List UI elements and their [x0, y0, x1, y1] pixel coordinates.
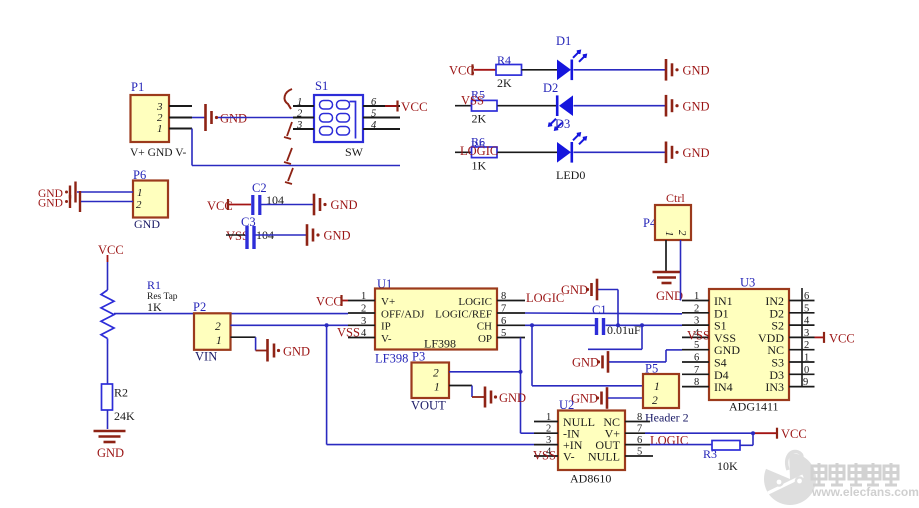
svg-text:GND: GND	[561, 283, 588, 297]
power port VCC (U3 VDD)	[815, 332, 855, 346]
resistor R6 1K	[471, 134, 497, 172]
svg-text:D1: D1	[556, 34, 571, 48]
svg-text:U3: U3	[740, 276, 755, 290]
ground GND (P6 pin 2)	[38, 191, 133, 212]
svg-text:VCC: VCC	[449, 64, 475, 78]
ground GND (P2 pin1)	[268, 339, 311, 362]
wire resistor to LED	[498, 151, 558, 153]
capacitor C3 104	[241, 215, 274, 249]
junction (IP net)	[325, 323, 329, 327]
svg-text:LF398: LF398	[375, 352, 408, 366]
wire P3 pin1 to ground	[449, 386, 484, 398]
power port VCC (R1 top)	[98, 243, 124, 262]
svg-text:1: 1	[361, 291, 366, 302]
no-connect mark 2	[284, 122, 292, 139]
svg-text:ADG1411: ADG1411	[729, 400, 779, 414]
wire LED to ground	[574, 69, 666, 71]
svg-text:P2: P2	[193, 300, 206, 314]
wire P3 pin2 to OP net	[449, 371, 521, 373]
svg-text:9: 9	[803, 377, 808, 388]
svg-text:LF398: LF398	[424, 337, 456, 351]
svg-text:0: 0	[804, 365, 809, 376]
svg-text:2: 2	[215, 321, 221, 333]
LED D2	[549, 95, 573, 129]
svg-text:IN3: IN3	[765, 380, 784, 394]
svg-text:VIN: VIN	[195, 350, 217, 364]
wire R1 to R2	[107, 344, 109, 384]
svg-text:OFF/ADJ: OFF/ADJ	[381, 308, 425, 320]
wire C2 to ground	[261, 204, 313, 206]
svg-text:GND: GND	[331, 198, 358, 212]
ground GND (C2)	[313, 194, 316, 216]
svg-text:5: 5	[637, 447, 642, 458]
svg-text:VCC: VCC	[316, 295, 342, 309]
svg-text:5: 5	[804, 303, 809, 314]
wire LED to ground	[574, 151, 666, 153]
svg-text:2: 2	[694, 303, 699, 314]
svg-text:GND: GND	[572, 356, 599, 370]
connector P4 Ctrl	[643, 191, 691, 240]
wire branch down from C1 net	[588, 325, 642, 349]
svg-text:www.elecfans.com: www.elecfans.com	[811, 485, 919, 499]
resistor R1 Res Tap 1K	[101, 278, 178, 344]
power port VCC (U2 V+)	[753, 427, 807, 441]
resistor R2 24K	[102, 384, 136, 423]
wire ground to U3 GND pin	[609, 350, 682, 362]
svg-text:1: 1	[694, 291, 699, 302]
svg-text:3: 3	[694, 316, 699, 327]
wire resistor to LED	[498, 105, 558, 107]
no-connect mark 1	[285, 89, 292, 109]
svg-text:IP: IP	[381, 321, 391, 333]
svg-text:1: 1	[137, 187, 143, 199]
svg-text:VCC: VCC	[98, 243, 124, 257]
analog switch U3 ADG1411	[709, 276, 789, 414]
junction (CH drop)	[530, 323, 534, 327]
svg-text:4: 4	[371, 120, 377, 131]
LED D1	[557, 51, 586, 80]
wire P1 pin2 to S1 pin2	[218, 117, 314, 119]
power port VCC (S1 pin 6)	[385, 99, 428, 114]
wire R2 to ground	[107, 410, 109, 429]
svg-text:10K: 10K	[717, 459, 738, 473]
svg-text:1K: 1K	[472, 158, 487, 172]
wire VCC to R1	[107, 262, 109, 290]
svg-text:4: 4	[804, 316, 810, 327]
wire resistor to LED	[522, 69, 558, 71]
connector P1	[130, 80, 186, 159]
svg-text:2K: 2K	[497, 76, 512, 90]
connector P6	[133, 168, 168, 231]
svg-text:D2: D2	[543, 81, 558, 95]
svg-text:V+ GND V-: V+ GND V-	[130, 147, 186, 159]
U3 right pin numbers 16..9	[802, 288, 810, 388]
svg-text:1: 1	[546, 412, 551, 423]
svg-text:1: 1	[654, 381, 660, 393]
svg-text:GND: GND	[283, 345, 310, 359]
svg-text:VSS: VSS	[461, 94, 484, 108]
svg-text:GND: GND	[499, 391, 526, 405]
resistor R4 2K	[496, 53, 522, 90]
svg-text:GND: GND	[683, 63, 710, 77]
svg-text:2: 2	[652, 395, 658, 407]
svg-text:LOGIC: LOGIC	[460, 144, 498, 158]
wire LED to ground	[574, 105, 666, 107]
power port LOGIC (LED row)	[455, 151, 472, 153]
svg-text:6: 6	[804, 291, 809, 302]
svg-text:V-: V-	[381, 333, 392, 345]
svg-text:VCC: VCC	[829, 332, 855, 346]
svg-text:1K: 1K	[147, 300, 162, 314]
resistor R3 10K	[703, 441, 740, 474]
earth ground (P4)	[653, 272, 684, 303]
svg-text:GND: GND	[683, 99, 710, 113]
svg-text:5: 5	[501, 328, 506, 339]
svg-text:V-: V-	[563, 450, 575, 464]
wire C3 to ground	[256, 234, 307, 236]
resistor R5 2K	[471, 88, 497, 126]
ground GND (P1 pin 2)	[192, 104, 247, 131]
svg-text:4: 4	[361, 328, 367, 339]
ground GND (C3)	[306, 224, 309, 246]
svg-text:2: 2	[676, 230, 688, 236]
U3 pin stubs and numbers	[682, 291, 815, 388]
svg-text:6: 6	[501, 316, 506, 327]
ground GND (P3)	[485, 387, 526, 408]
svg-text:AD8610: AD8610	[570, 472, 611, 486]
svg-text:VOUT: VOUT	[411, 399, 446, 413]
connector P2 VIN	[193, 300, 231, 364]
svg-text:GND: GND	[683, 146, 710, 160]
svg-text:GND: GND	[97, 446, 124, 460]
svg-text:8: 8	[501, 291, 506, 302]
U1 pin stubs and numbers	[348, 291, 525, 339]
svg-text:2: 2	[433, 368, 439, 380]
svg-text:GND: GND	[134, 217, 160, 231]
svg-text:LOGIC: LOGIC	[526, 291, 564, 305]
connector P3 VOUT	[411, 350, 449, 413]
ground GND (LED D3)	[665, 142, 668, 164]
junction (R3 to VCC)	[751, 431, 755, 435]
svg-text:SW: SW	[345, 145, 364, 159]
earth ground (R2)	[94, 431, 126, 460]
svg-text:D3: D3	[555, 117, 570, 131]
power port VSS (LED row)	[455, 105, 472, 107]
svg-text:3: 3	[361, 316, 366, 327]
wire P1 pin1 net	[192, 129, 400, 166]
junction (branch down)	[640, 323, 644, 327]
svg-text:8: 8	[694, 377, 699, 388]
svg-text:1: 1	[804, 353, 809, 364]
svg-text:7: 7	[501, 304, 506, 315]
P1 pin stubs	[169, 106, 192, 129]
ground GND (LED D2)	[665, 95, 668, 117]
U2 pin stubs and numbers	[534, 412, 653, 458]
power port VCC (C2)	[207, 199, 251, 213]
junction (P3 tap)	[519, 370, 523, 374]
svg-text:2: 2	[136, 199, 142, 211]
junction (C1 right)	[616, 323, 620, 327]
wire R1 tap to P2/U1	[114, 313, 348, 315]
power port VSS (C3)	[226, 229, 249, 243]
wire C1 to U3 S1	[606, 324, 683, 326]
no-connect mark 4	[285, 168, 293, 184]
wire C1 net up to ground	[597, 290, 618, 326]
switch S1	[314, 79, 364, 159]
svg-text:2: 2	[361, 304, 366, 315]
svg-text:3: 3	[804, 328, 809, 339]
svg-text:2: 2	[804, 340, 809, 351]
svg-text:OP: OP	[478, 333, 492, 345]
svg-text:GND: GND	[220, 112, 247, 126]
connector P5 Header 2	[643, 362, 689, 425]
svg-text:R1: R1	[147, 278, 161, 292]
svg-text:LOGIC/REF: LOGIC/REF	[435, 308, 492, 320]
power port VCC (LED row)	[449, 64, 496, 78]
svg-text:1: 1	[157, 123, 163, 135]
svg-text:CH: CH	[477, 321, 492, 333]
svg-text:P3: P3	[412, 350, 425, 364]
svg-text:8: 8	[637, 412, 642, 423]
S1 pin stubs and numbers	[293, 97, 400, 131]
wire R3 to VCC net	[740, 433, 753, 445]
svg-text:2K: 2K	[472, 112, 487, 126]
ground GND (LED D1)	[665, 59, 668, 81]
svg-text:VCC: VCC	[781, 427, 807, 441]
wire P4 pin2 to U3 IN1	[680, 240, 682, 301]
wire U1 OP to U2 -IN	[521, 338, 535, 434]
svg-text:LED0: LED0	[556, 168, 585, 182]
svg-text:Ctrl: Ctrl	[666, 191, 685, 205]
svg-text:R2: R2	[114, 386, 128, 400]
svg-text:NULL: NULL	[588, 450, 620, 464]
svg-text:2: 2	[297, 109, 303, 120]
wire P2 pin2 to U1 IP	[231, 324, 349, 326]
watermark elecfans logo	[764, 451, 816, 505]
svg-text:1: 1	[434, 382, 440, 394]
svg-text:V+: V+	[381, 296, 395, 308]
wire U1 CH to C1	[525, 324, 595, 326]
svg-text:6: 6	[371, 97, 377, 108]
svg-text:GND: GND	[571, 392, 598, 406]
svg-text:VSS: VSS	[687, 329, 710, 343]
capacitor C1 0.01uF	[592, 303, 641, 337]
power port VCC (U1 pin1)	[316, 295, 348, 309]
svg-text:LOGIC: LOGIC	[458, 296, 492, 308]
P4 pin1 lead to ground	[665, 240, 667, 271]
svg-text:3: 3	[296, 120, 302, 131]
svg-text:C2: C2	[252, 181, 267, 195]
wire P2 pin1 to ground	[231, 337, 268, 350]
svg-text:GND: GND	[38, 198, 63, 210]
svg-text:Header 2: Header 2	[645, 411, 689, 425]
svg-text:6: 6	[637, 435, 642, 446]
svg-text:S1: S1	[315, 79, 328, 93]
svg-text:24K: 24K	[114, 409, 135, 423]
wire U1 LOGIC/REF to U3 D1	[525, 312, 682, 315]
wire ground to P5 pin2	[608, 397, 643, 399]
op-amp U1 LF398	[375, 277, 497, 366]
svg-text:2: 2	[546, 424, 551, 435]
svg-text:1: 1	[297, 97, 302, 108]
svg-text:C1: C1	[592, 303, 607, 317]
svg-text:1: 1	[663, 231, 675, 237]
svg-text:VSS: VSS	[533, 449, 556, 463]
op-amp U2 AD8610	[558, 398, 625, 486]
svg-text:7: 7	[637, 424, 642, 435]
wire IP net to U2 +IN	[327, 325, 534, 444]
capacitor C2 104	[252, 181, 284, 215]
svg-text:GND: GND	[324, 229, 351, 243]
svg-text:GND: GND	[656, 289, 683, 303]
svg-text:P1: P1	[131, 80, 144, 94]
LED D3	[556, 133, 586, 182]
svg-text:3: 3	[546, 435, 551, 446]
wire U2 OUT to R3	[650, 444, 712, 446]
wire CH net to P5 pin1	[532, 325, 643, 386]
svg-text:1: 1	[216, 335, 222, 347]
svg-text:5: 5	[371, 109, 376, 120]
watermark chinese text	[812, 463, 898, 485]
ground GND (P6 pin 1)	[38, 182, 133, 203]
svg-text:IN4: IN4	[714, 380, 733, 394]
wire U2 V+ to VCC	[645, 432, 753, 434]
svg-text:6: 6	[694, 353, 699, 364]
svg-text:VSS: VSS	[337, 326, 360, 340]
no-connect mark 3	[284, 148, 292, 164]
svg-text:7: 7	[694, 365, 699, 376]
svg-text:VCC: VCC	[401, 99, 428, 114]
